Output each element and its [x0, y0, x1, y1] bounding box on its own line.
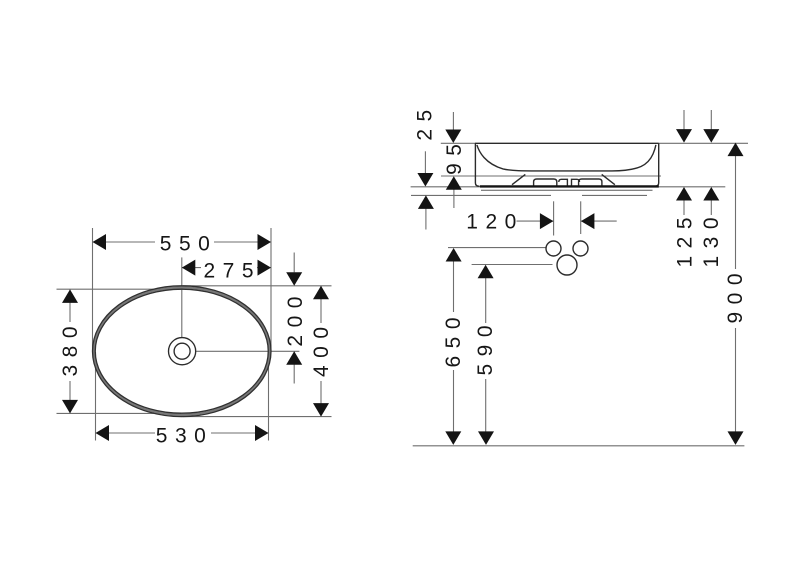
svg-text:900: 900: [724, 266, 747, 324]
svg-text:550: 550: [160, 233, 218, 256]
svg-text:275: 275: [203, 259, 261, 282]
svg-text:95: 95: [443, 137, 466, 175]
svg-text:130: 130: [700, 210, 723, 268]
svg-text:120: 120: [466, 211, 524, 234]
svg-text:650: 650: [442, 310, 465, 368]
svg-text:125: 125: [674, 210, 697, 268]
svg-text:25: 25: [413, 102, 436, 140]
svg-text:380: 380: [59, 319, 82, 377]
svg-text:590: 590: [474, 318, 497, 376]
svg-text:400: 400: [310, 319, 333, 377]
svg-text:200: 200: [284, 289, 307, 347]
svg-text:530: 530: [156, 425, 214, 448]
